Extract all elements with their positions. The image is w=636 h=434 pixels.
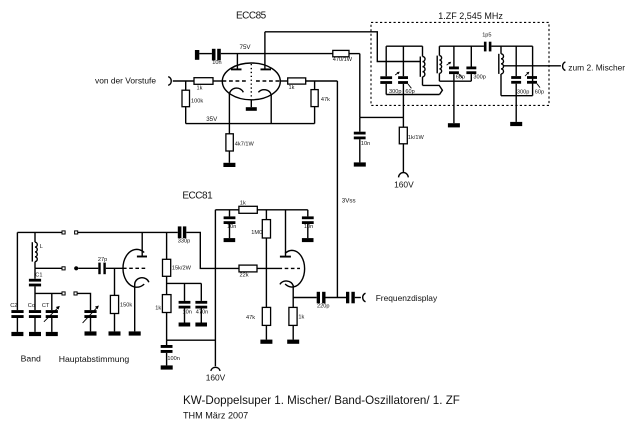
resistor 470/1W (B+ dropper) [333,50,353,63]
contact row1 right [75,231,78,234]
U1 triode B grid (dashed) [256,80,280,82]
wire cap to connector [355,297,361,299]
resistor 15k/2W (osc plate load) [163,232,192,294]
ground (47k) [260,340,272,344]
svg-text:Frequenzdisplay: Frequenzdisplay [376,293,438,303]
wire row2 to 27p [78,267,98,269]
resistor 1k (B+ rail) [239,201,257,214]
svg-text:ECC85: ECC85 [236,10,267,21]
ground (U2A cathode) [129,331,141,335]
wire bottom supply rail [167,339,216,341]
svg-text:100n: 100n [167,356,179,362]
wire switch row3 left [35,292,62,294]
svg-text:Band: Band [21,354,41,364]
output connector (zum 2. Mischer) [563,62,566,71]
resistor 100k (grid leak) [182,90,203,107]
wire cathode output node [293,297,317,299]
capacitor C1 [29,268,43,310]
tube U1 internal divider (dotted) [250,64,252,99]
U2B grid (dashed) [279,267,301,269]
input connector (von der Vorstufe) [168,77,171,86]
svg-text:1k: 1k [298,315,304,321]
dashed enclosure 1.ZF [371,22,549,105]
capacitor 330p (osc feedback) [178,226,190,244]
svg-text:150k: 150k [120,303,132,309]
inductor L1 (tank1 coil) [420,46,425,85]
wire decoupling branch [167,282,202,284]
capacitor 10n (rail bypass left) [224,210,237,238]
resistor 1M0 (grid) [251,210,270,269]
svg-text:Co: Co [28,303,35,309]
resistor 22k (grid stopper) [239,265,257,278]
svg-text:160V: 160V [206,372,226,382]
wire rail to corner [349,54,360,118]
wire tank1 bottom rail [386,94,439,96]
svg-text:60p: 60p [456,75,465,81]
wire switch row1 to ECC81 rail [78,231,178,233]
svg-text:60p: 60p [535,89,544,95]
svg-text:75V: 75V [240,44,252,51]
U1 triode A grid (dashed) [223,80,247,82]
supply terminal 160V (IF) [394,173,414,190]
svg-text:35V: 35V [206,116,218,123]
contact row3 left [62,292,65,295]
svg-text:C1: C1 [35,272,42,278]
wire tank2 bottom rail [439,80,471,82]
wire tank3 right rail [532,46,534,95]
U1 triode A anode [231,54,242,70]
resistor 1k (U1 grid B) [280,78,305,91]
svg-text:10n: 10n [212,60,221,66]
ground (tank2) [448,123,460,127]
trimmer 60p (tank3) [525,72,544,96]
wire 22k to U2B grid [257,267,279,269]
svg-text:10n: 10n [361,141,370,147]
resistor 150k (osc grid leak) [110,268,132,331]
wire B+ node horizontal [360,116,404,118]
resistor 1k (U1 grid A) [194,78,213,92]
inductor L3 (tank3 coil) [499,46,504,95]
svg-text:KW-Doppelsuper 1. Mischer/ Ban: KW-Doppelsuper 1. Mischer/ Band-Oszillat… [183,394,460,407]
wire ground to 10n [199,53,212,55]
svg-text:47k: 47k [321,97,330,103]
ground (B+ bypass cap) [354,162,366,166]
svg-text:THM März 2007: THM März 2007 [183,410,248,420]
wire 100k to 35V rail [185,107,187,124]
svg-text:470n: 470n [196,310,208,316]
wire band left rail [16,232,18,310]
capacitor 10n (anode bypass) [212,49,222,66]
U1 shield stem [250,100,252,107]
wire 330p to corner down to 22k [186,232,239,268]
ground (10n anode bypass, rotated bar) [195,50,199,60]
variable capacitor (Hauptabstimmung) [83,306,99,332]
ground (U1 shield) [246,107,257,111]
output connector (Frequenzdisplay) [363,293,366,302]
ground (CT) [46,332,58,336]
capacitor 10n (rail bypass right) [302,210,314,238]
contact row2 left [62,267,65,270]
ground (100n) [161,365,173,369]
U1 triode A cathode [229,88,243,124]
wire tank2 top rail [439,45,484,47]
resistor 1k (osc supply dropper) [155,295,171,341]
svg-text:ECC81: ECC81 [182,191,213,202]
wire tank3 top rail [491,45,532,47]
wire switch row2 left [35,267,62,269]
wire 35V rail [186,123,315,125]
wire tank1 top rail [386,45,422,47]
capacitor 100n (supply bypass) [161,340,180,365]
svg-text:CT: CT [42,303,50,309]
svg-text:3Vss: 3Vss [342,198,356,205]
svg-text:100k: 100k [191,98,203,104]
svg-text:1k: 1k [289,85,295,91]
U2A anode [137,232,147,256]
ground (U2B cathode 1k) [287,340,299,344]
ground (osc 10n) [179,323,191,327]
wire resistor to tube [213,80,223,82]
wire stem to R 100k [185,81,187,90]
capacitor C2 [10,303,23,332]
contact row1 left [62,231,65,234]
capacitor 300p (tank1) [380,46,401,95]
svg-text:1p5: 1p5 [482,33,491,39]
tube U2 triode A envelope [123,249,144,287]
trimmer 60p (tank2) [447,46,465,123]
tube U2 triode B envelope [285,250,305,287]
resistor 1k/1W (160V feed) [399,117,424,172]
svg-text:1k: 1k [197,86,203,92]
contact row3 right [74,292,77,295]
U2A cathode [135,278,149,332]
svg-text:Hauptabstimmung: Hauptabstimmung [59,354,130,364]
U1 triode B anode [261,32,272,70]
ground (rail bypass left) [224,238,236,242]
svg-text:L: L [40,244,43,250]
supply terminal 160V (oscillator) [206,367,226,382]
wire U1 anode B to IF transformer [265,32,421,62]
U2A grid (dashed) [123,267,146,269]
contact row2 right (closed dot) [74,266,78,270]
tube U1 ECC85 envelope [222,63,280,100]
svg-text:15k/2W: 15k/2W [172,266,192,272]
svg-text:22k: 22k [240,272,249,278]
svg-text:10n: 10n [304,224,313,230]
ground (Co) [29,332,41,336]
svg-text:27p: 27p [98,257,107,263]
wire grid B to output corner [306,80,338,82]
svg-text:300p: 300p [517,89,529,95]
wire oscillator B+ top rail [215,209,307,211]
wire rail up to 47k [314,107,316,124]
svg-text:1.ZF 2,545 MHz: 1.ZF 2,545 MHz [438,11,503,21]
ground (C2) [11,332,23,336]
capacitor 27p [98,257,107,274]
ground (150k) [109,331,121,335]
inductor L2 (coupled coil) [437,46,441,81]
svg-text:1k: 1k [240,201,246,207]
wire 75V rail [221,53,333,55]
wire 27p to grid [106,267,123,269]
resistor 47k (U1 B grid leak) [311,81,330,107]
U1 triode B cathode [258,90,271,124]
svg-text:470/1W: 470/1W [333,57,353,63]
wire B+ vertical to 160V [214,210,216,366]
svg-text:330p: 330p [178,239,190,245]
svg-text:zum 2. Mischer: zum 2. Mischer [568,62,625,72]
wire row3 to tuning cap [77,293,90,310]
ground (osc 470n) [195,323,207,327]
svg-text:300p: 300p [473,75,485,81]
svg-text:1k/1W: 1k/1W [408,135,425,141]
inductor L (band coil) [32,232,43,268]
wire 220p to junction [326,297,347,299]
U2B anode [280,210,291,257]
capacitor 1p5 (coupling) [482,33,491,52]
resistor 47k (to ground) [246,268,271,339]
resistor 4k7/1W (cathode) [226,124,255,163]
capacitor 470n (osc decoupling) [195,283,208,322]
wire IF output tap [504,65,561,67]
wire input to grid [173,80,194,82]
U2B cathode [280,281,293,298]
ground (rail bypass right) [302,238,314,242]
wire tank3 bottom rail [501,95,533,97]
capacitor Co [28,303,41,332]
capacitor 220p (output coupling) [317,292,330,310]
ground (tuning cap) [85,331,97,335]
ground (4k7 cathode resistor) [223,163,235,167]
svg-text:160V: 160V [394,180,414,190]
svg-text:C2: C2 [10,303,17,309]
wire mixer output vertical (3Vss) [336,81,338,298]
capacitor 300p (tank3) [511,46,529,122]
svg-text:1M0: 1M0 [251,230,262,236]
svg-text:47k: 47k [246,315,255,321]
svg-text:4k7/1W: 4k7/1W [235,142,255,148]
capacitor 10n (osc decoupling) [179,283,192,322]
capacitor 300p (tank2) [466,46,485,81]
wire chevron link L1 to tank1 bottom [423,85,443,94]
wire tank1 bottom to B+ node [402,95,404,118]
svg-text:220p: 220p [317,304,329,310]
trimmer CT [42,293,60,332]
svg-text:1k: 1k [155,305,161,311]
capacitor 10n (B+ bypass) [354,117,370,162]
svg-text:10n: 10n [227,224,236,230]
resistor 1k (U2B cathode) [289,298,305,340]
svg-text:von der Vorstufe: von der Vorstufe [95,76,156,86]
wire switch row1 left [17,231,62,233]
trimmer 60p (tank1) [395,46,415,95]
svg-text:10n: 10n [183,310,192,316]
capacitor (display coupling) [346,292,355,304]
ground (tank3) [510,122,522,126]
